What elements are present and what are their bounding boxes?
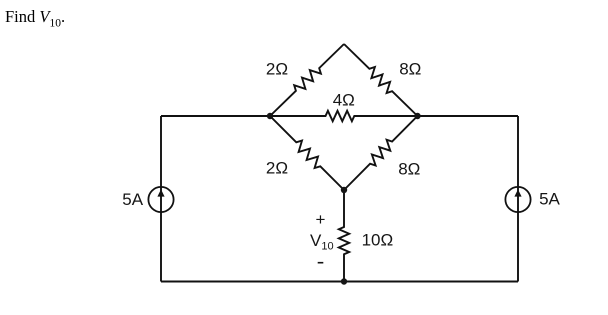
svg-text:8Ω: 8Ω [398,160,420,179]
resistor R2 8ohm top-right [344,44,418,116]
junction node D (bottom rail) [341,278,347,284]
wire: left horizontal from left rail to node A [161,115,270,117]
resistor R5 8ohm bottom-right [344,116,418,190]
junction node B (right vertex) [414,113,420,119]
wire: right rail [517,116,519,282]
label minus sign [318,262,324,264]
resistor R4 2ohm bottom-left [270,116,344,190]
svg-text:2Ω: 2Ω [266,60,288,79]
svg-text:10Ω: 10Ω [362,231,394,250]
arrowhead of I1 [157,189,164,196]
arrowhead of I2 [514,189,521,196]
svg-text:8Ω: 8Ω [399,59,421,78]
resistor R1 2ohm top-left [270,44,344,116]
svg-text:+: + [316,210,326,229]
svg-text:5A: 5A [122,190,143,209]
svg-text:5A: 5A [539,189,560,208]
junction node A (left vertex) [267,113,273,119]
title: Find V10. [5,7,65,29]
wire: bottom rail [161,281,518,283]
svg-text:4Ω: 4Ω [333,91,355,110]
current source I2 5A right [505,187,530,212]
resistor R3 4ohm middle [270,111,418,121]
wire: left rail [160,116,162,282]
svg-text:V10: V10 [310,231,334,252]
current source I1 5A left [148,187,173,212]
resistor R6 10ohm vertical [339,190,349,282]
junction node C (bottom vertex) [341,187,347,193]
wire: right horizontal from node B to right rail [418,115,519,117]
svg-text:2Ω: 2Ω [266,158,288,177]
